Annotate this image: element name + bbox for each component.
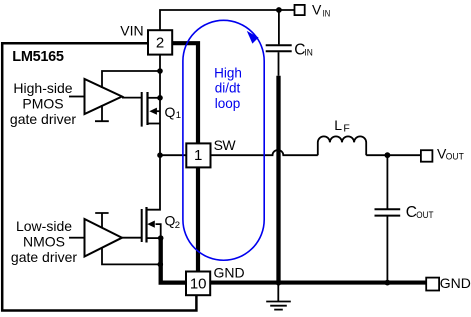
- svg-text:2: 2: [156, 35, 164, 52]
- svg-text:1: 1: [176, 110, 181, 121]
- wire SW to inductor with hop over CIN trace: [211, 150, 318, 155]
- svg-text:di/dt: di/dt: [215, 81, 241, 96]
- node VIN junction: [276, 7, 282, 13]
- wire VIN node to CIN: [278, 10, 280, 44]
- node VOUT junction: [385, 152, 391, 158]
- Q2 gate wire: [122, 237, 141, 239]
- blue di/dt loop: [183, 20, 264, 260]
- thick trace VIN pin2 to GND pin10 (di/dt loop): [172, 43, 198, 271]
- pin 10 box GND: [186, 272, 210, 296]
- Q2 source stub: [147, 237, 161, 239]
- wire driver2 input stub: [69, 237, 85, 239]
- wire driver1 supply from VIN rail: [102, 71, 160, 88]
- Q2 channel bar: [145, 207, 147, 243]
- pin 1 box SW: [186, 143, 210, 167]
- blue loop arrowhead: [247, 31, 259, 44]
- ground symbol: [266, 285, 291, 310]
- capacitor COUT: [375, 209, 401, 282]
- Q2 gate bar: [141, 209, 143, 242]
- svg-text:GND: GND: [440, 275, 471, 291]
- driver1 return tick: [95, 105, 109, 121]
- wire driver1 input stub: [69, 96, 85, 98]
- node CIN GND junction: [276, 280, 281, 285]
- wire inductor to VOUT terminal: [366, 154, 421, 156]
- Q2 drain stub: [147, 155, 161, 210]
- Q1 drain stub: [148, 123, 161, 125]
- wire driver2 return to GND: [102, 248, 160, 264]
- svg-text:Q: Q: [165, 104, 176, 120]
- Q1 body arrow: [149, 108, 157, 115]
- thick trace CIN to GND rail: [276, 76, 280, 283]
- IC boundary box LM5165: [2, 43, 196, 310]
- Q1 channel bar: [146, 92, 148, 125]
- svg-text:1: 1: [194, 147, 202, 164]
- thick GND rail: [186, 281, 426, 285]
- svg-text:gate driver: gate driver: [10, 111, 76, 127]
- Q1 gate bar: [141, 92, 143, 127]
- capacitor CIN: [266, 45, 292, 76]
- Q1 gate wire: [122, 97, 141, 99]
- svg-text:IN: IN: [304, 47, 313, 58]
- svg-text:V: V: [312, 1, 322, 17]
- terminal VOUT: [421, 150, 433, 162]
- terminal GND: [426, 278, 439, 291]
- node Q2 source: [158, 235, 164, 241]
- svg-text:gate driver: gate driver: [11, 249, 77, 265]
- Q2 body arrow: [147, 221, 155, 228]
- Q1 source stub: [148, 97, 161, 99]
- svg-text:VIN: VIN: [120, 23, 143, 39]
- inductor LF: [318, 136, 366, 155]
- svg-text:OUT: OUT: [416, 210, 433, 221]
- svg-text:LM5165: LM5165: [12, 49, 64, 65]
- pin 2 box VIN: [148, 30, 172, 54]
- wire pin2 to VIN terminal: [160, 10, 295, 30]
- svg-text:2: 2: [175, 220, 180, 231]
- op-amp U1 high-side driver triangle: [85, 79, 123, 114]
- svg-text:L: L: [334, 117, 342, 133]
- driver2 supply tick: [95, 213, 108, 228]
- svg-text:F: F: [343, 122, 349, 134]
- node SW: [157, 152, 163, 158]
- node Q1 source: [157, 95, 163, 101]
- node driver1 supply tap: [157, 68, 163, 74]
- wire VOUT node to COUT: [386, 155, 388, 209]
- svg-text:High: High: [214, 65, 242, 80]
- svg-text:SW: SW: [214, 137, 237, 153]
- node COUT GND junction: [385, 280, 391, 286]
- svg-text:GND: GND: [214, 264, 245, 280]
- transistor Q2 NMOS: [122, 155, 161, 242]
- wire SW internal: [160, 154, 186, 156]
- svg-text:PMOS: PMOS: [22, 96, 63, 112]
- svg-text:NMOS: NMOS: [23, 234, 65, 250]
- svg-text:loop: loop: [215, 96, 241, 111]
- svg-text:High-side: High-side: [13, 80, 72, 96]
- terminal VIN: [295, 5, 305, 15]
- svg-text:10: 10: [190, 275, 207, 292]
- transistor Q1 PMOS: [122, 92, 160, 127]
- svg-text:OUT: OUT: [446, 152, 464, 163]
- thick trace Q2 source to GND pin10: [161, 238, 186, 283]
- wire VIN pin2 internal rail down to SW node: [159, 55, 161, 155]
- op-amp U2 low-side driver triangle: [85, 219, 123, 257]
- node driver2 return tap: [158, 262, 164, 268]
- svg-text:IN: IN: [323, 9, 331, 20]
- svg-text:Low-side: Low-side: [16, 218, 72, 234]
